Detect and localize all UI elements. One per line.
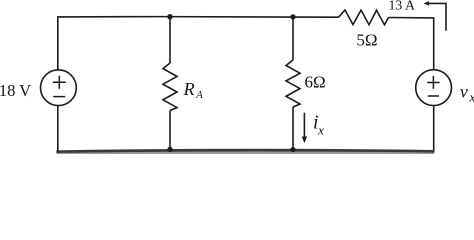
resistor RA vertical zigzag [163, 63, 177, 111]
current arrow ix [303, 113, 305, 138]
shadow strip under bottom wire [56, 153, 434, 155]
wire RA branch lower [169, 111, 171, 152]
source 18V minus sign [53, 96, 65, 98]
node dot RA top [167, 14, 172, 19]
wire bottom horizontal [56, 150, 434, 152]
node dot 6ohm top [290, 14, 295, 19]
source 18V circle [41, 70, 77, 106]
source 18V plus sign [53, 76, 66, 89]
node dot 6ohm bottom [290, 147, 295, 152]
svg-text:5Ω: 5Ω [356, 31, 377, 50]
wire RA branch upper [169, 17, 171, 63]
wire top right corner [389, 18, 434, 71]
svg-text:13 A: 13 A [389, 0, 415, 13]
resistor 5ohm horizontal zigzag [339, 10, 389, 25]
svg-text:18 V: 18 V [0, 81, 31, 100]
wire 6ohm branch upper [292, 17, 294, 60]
wire right vertical lower [433, 106, 435, 153]
source Vx minus sign [428, 95, 439, 97]
svg-text:v: v [460, 81, 468, 101]
resistor 6ohm vertical zigzag [286, 60, 300, 107]
wire left vertical lower [57, 106, 59, 153]
wire top left span [58, 17, 339, 70]
svg-text:x: x [317, 123, 324, 138]
node dot RA bottom [167, 147, 172, 152]
svg-text:x: x [469, 90, 474, 105]
svg-text:A: A [195, 90, 203, 101]
current arrow 13A hook [428, 3, 446, 30]
source Vx circle [416, 70, 452, 106]
wire 6ohm branch lower [292, 107, 294, 151]
source Vx plus sign [427, 76, 440, 89]
svg-text:6Ω: 6Ω [305, 73, 326, 92]
svg-text:R: R [183, 79, 195, 99]
